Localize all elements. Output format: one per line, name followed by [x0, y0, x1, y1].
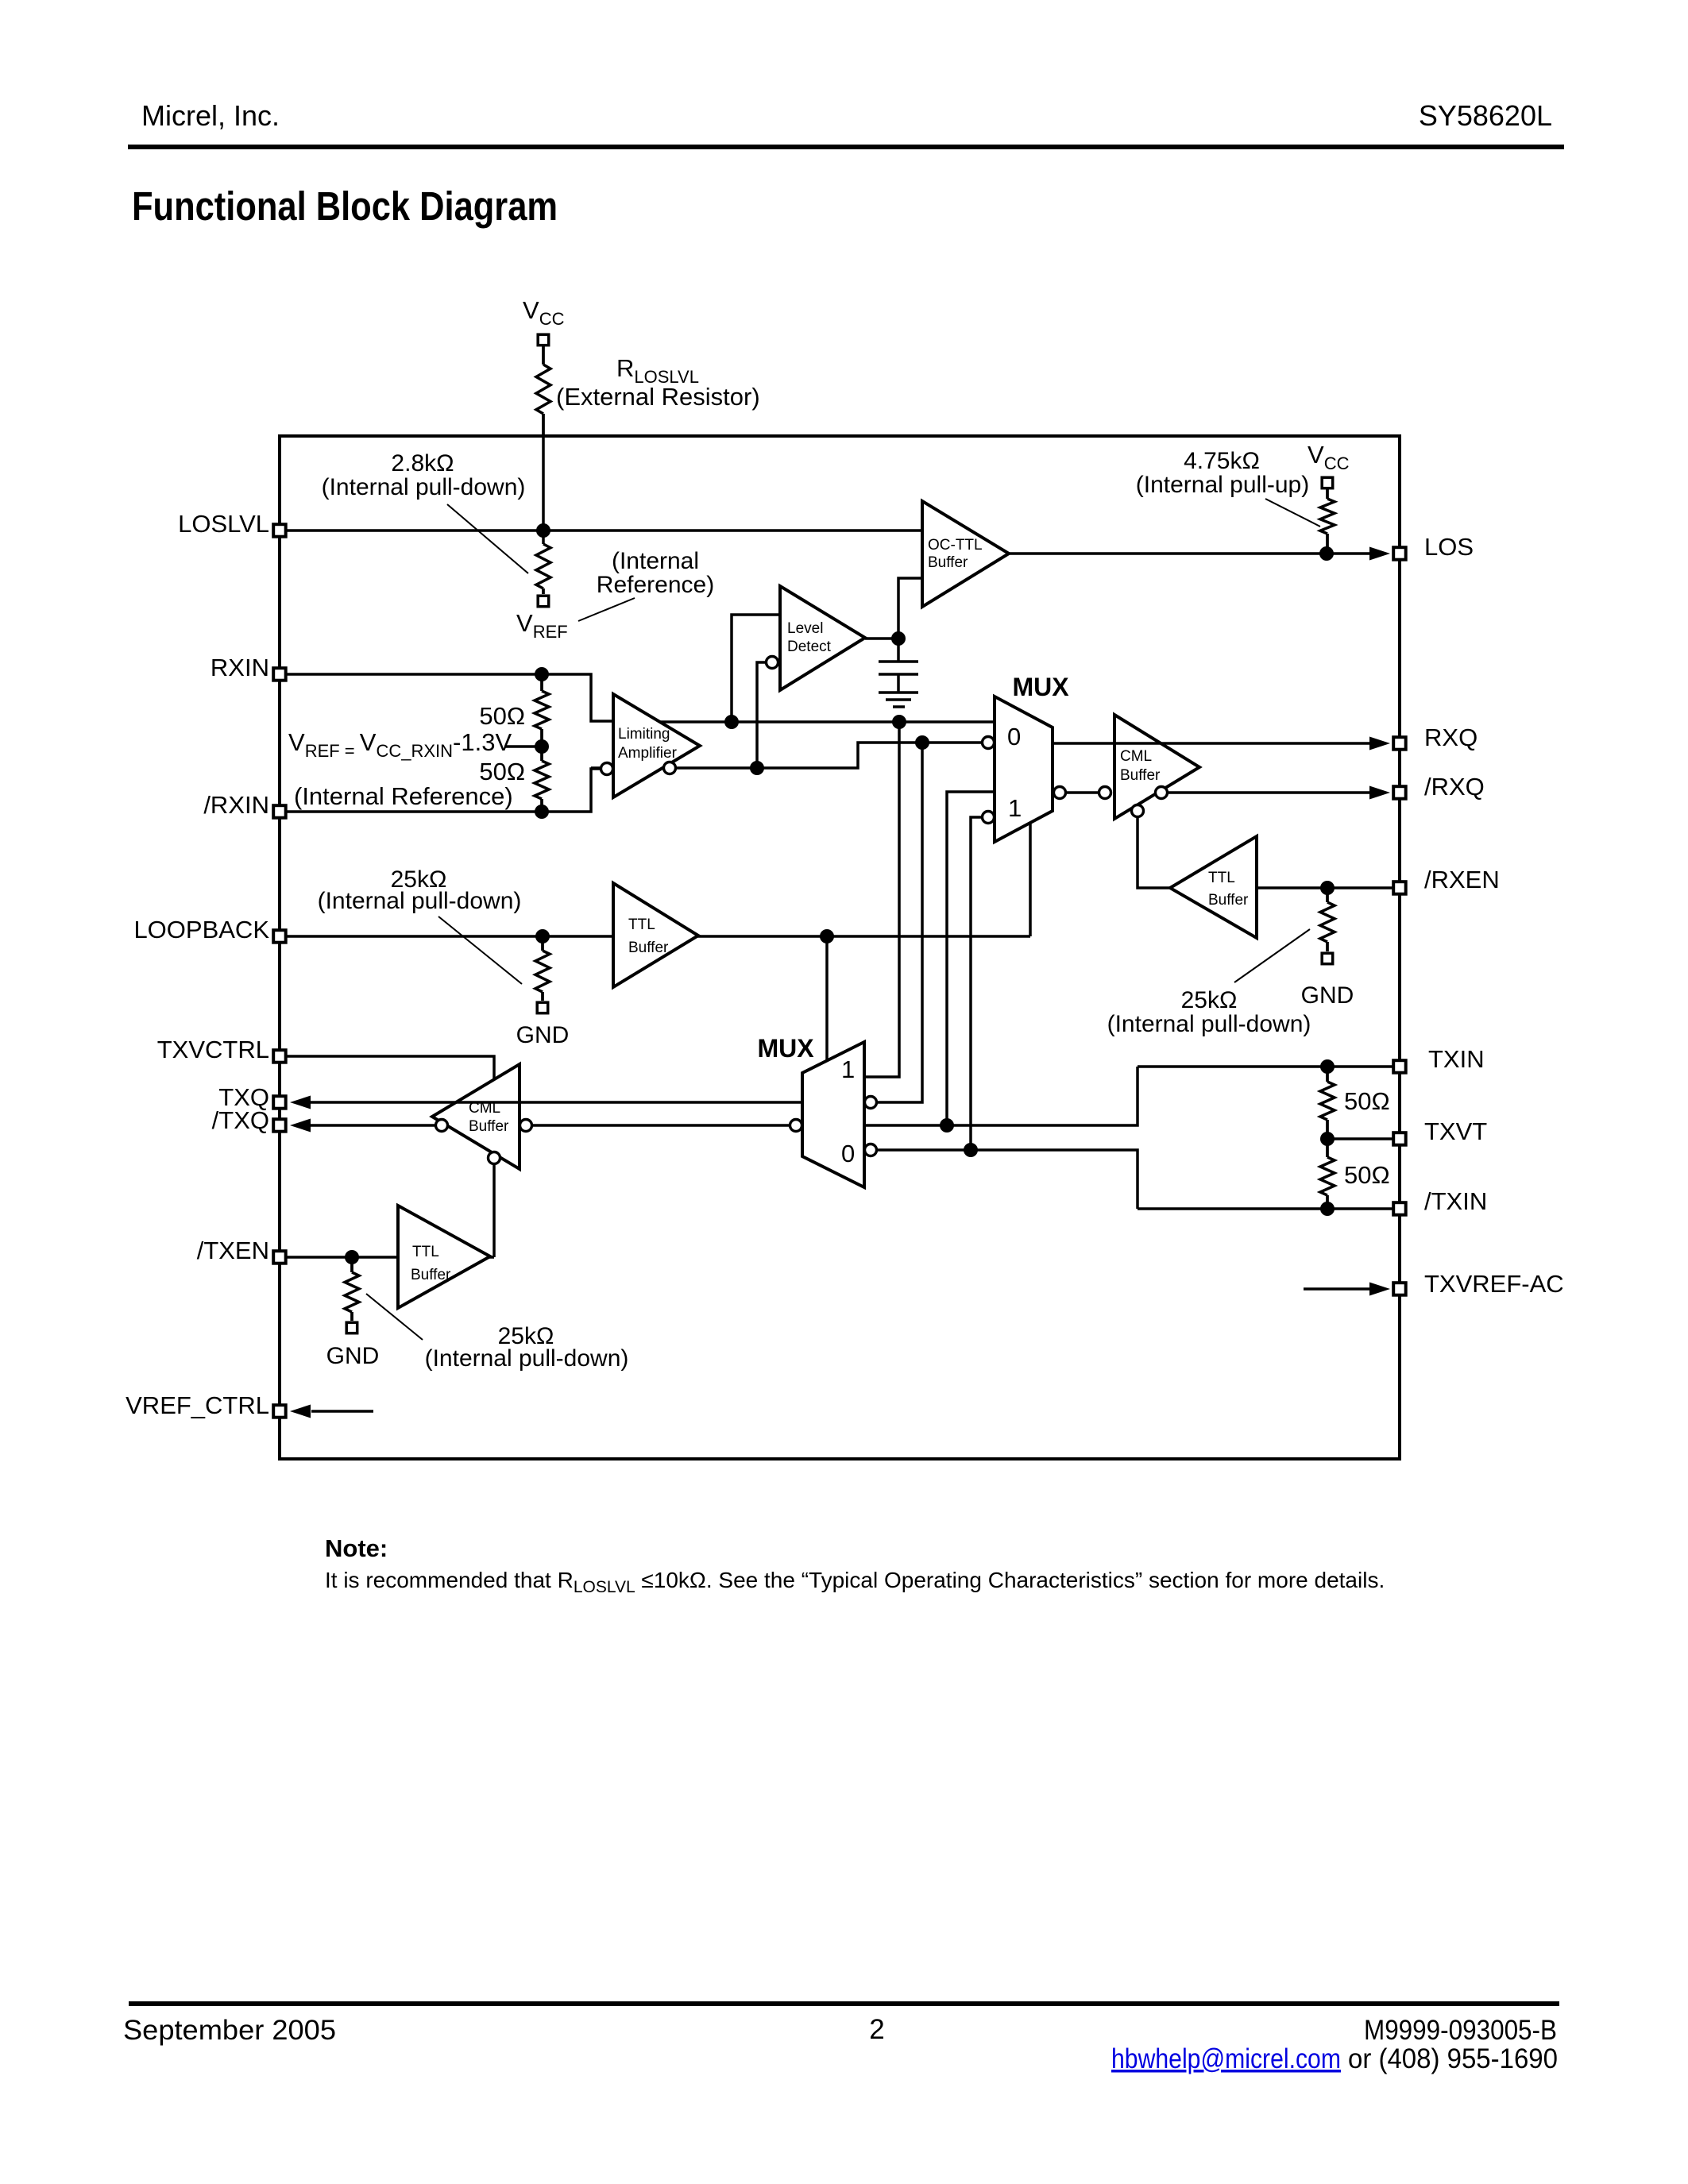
svg-text:50Ω: 50Ω	[1344, 1087, 1390, 1115]
svg-text:4.75kΩ: 4.75kΩ	[1184, 448, 1260, 474]
node /TXIN loopback tap	[964, 1143, 978, 1157]
node level detect output	[891, 631, 906, 646]
wire limiting amp out- to TX MUX input bubble	[877, 743, 922, 1102]
pointer 2.8k	[447, 504, 528, 573]
svg-text:hbwhelp@micrel.com: hbwhelp@micrel.com	[1111, 2043, 1341, 2074]
wire /RXEN 25k pulldown lead	[1326, 888, 1329, 902]
wire level detect input 1 feed	[732, 615, 780, 722]
svg-text:VCC: VCC	[1308, 441, 1350, 473]
pointer 4.75k	[1265, 499, 1320, 527]
wire level detect output to OC-TTL buffer	[865, 578, 922, 639]
wire limiting amp out+ to TX MUX input 1	[864, 722, 899, 1077]
terminal VCC external	[538, 334, 549, 345]
node limiting out- to TX MUX	[915, 735, 929, 750]
wire TXQ net	[310, 1101, 802, 1104]
node /RXIN junction	[535, 805, 549, 819]
wire R_LOSLVL to LOSLVL net	[542, 414, 545, 531]
svg-text:1: 1	[1008, 794, 1022, 822]
pin TXVT	[1393, 1133, 1406, 1145]
bubble TX MUX input 1 side	[865, 1097, 877, 1109]
svg-text:(Internal pull-down): (Internal pull-down)	[1107, 1011, 1311, 1037]
svg-text:VREF_CTRL: VREF_CTRL	[126, 1391, 269, 1419]
op-amp U9 TX CML buffer	[432, 1064, 520, 1169]
resistor LOOPBACK 25k pull-down	[535, 936, 550, 1001]
wire VREF formula tap	[505, 745, 542, 748]
wire /RXQ net	[1168, 791, 1373, 794]
resistor 4.75k internal pull-up	[1320, 489, 1335, 554]
svg-text:/RXEN: /RXEN	[1424, 866, 1500, 893]
bubble RX CML inverted output	[1156, 787, 1168, 799]
chip boundary	[280, 436, 1400, 1459]
svg-text:/RXQ: /RXQ	[1424, 773, 1485, 801]
svg-text:TXVT: TXVT	[1424, 1117, 1487, 1145]
mux U4 RX MUX	[995, 696, 1053, 842]
svg-text:LOSLVL: LOSLVL	[178, 510, 269, 538]
wire loopback buffer output	[287, 935, 1030, 938]
svg-text:RLOSLVL: RLOSLVL	[616, 354, 699, 387]
arrow /RXQ output	[1369, 786, 1390, 800]
wire TXVCTRL net to TX CML select and /TXEN buffer	[287, 1056, 494, 1257]
bubble RX MUX input 1	[983, 812, 995, 824]
wire LOSLVL net	[287, 529, 922, 532]
wire RX MUX input 1 from /TXIN net	[971, 817, 982, 1150]
svg-text:September 2005: September 2005	[123, 2015, 336, 2046]
pin LOSLVL	[273, 524, 286, 537]
pin RXIN	[273, 668, 286, 681]
svg-text:/RXIN: /RXIN	[203, 791, 269, 819]
svg-text:Amplifier: Amplifier	[618, 745, 678, 762]
arrow /TXQ output	[290, 1119, 311, 1133]
wire LOOPBACK 25k pulldown lead	[541, 936, 544, 951]
resistor R_LOSLVL external	[536, 346, 550, 436]
wire /TXEN net	[287, 1256, 494, 1259]
bubble TX MUX input 0	[865, 1144, 877, 1156]
svg-text:0: 0	[1007, 723, 1021, 751]
terminal GND loopback pull-down	[537, 1002, 548, 1013]
pin TXIN	[1393, 1060, 1406, 1073]
wire LOOPBACK 25k to GND	[541, 992, 544, 1001]
pointer internal reference	[578, 598, 635, 621]
svg-text:VCC: VCC	[523, 296, 565, 329]
svg-text:VREF: VREF	[516, 609, 568, 642]
pin /RXQ	[1393, 786, 1406, 799]
wire /TXIN net	[1138, 1207, 1393, 1210]
wire /TXEN 25k to GND	[350, 1312, 353, 1321]
wire TXVREF-AC stub	[1304, 1287, 1373, 1291]
wire limiting amp out+ to RX MUX input 0 path	[656, 720, 995, 723]
pointer 25k TXEN	[366, 1294, 423, 1340]
svg-text:LOOPBACK: LOOPBACK	[133, 916, 269, 943]
terminal VREF internal	[538, 596, 549, 607]
node limiting out- to level detect	[750, 761, 764, 775]
svg-text:Buffer: Buffer	[1208, 892, 1249, 909]
pin TXVCTRL	[273, 1050, 286, 1063]
wire TXVT tap	[1327, 1137, 1393, 1140]
arrow VREF_CTRL input	[290, 1405, 311, 1418]
node LOS pull-up junction	[1319, 546, 1334, 561]
ground symbol under capacitor	[879, 693, 918, 707]
svg-text:50Ω: 50Ω	[1344, 1161, 1390, 1189]
svg-text:/TXIN: /TXIN	[1424, 1187, 1487, 1215]
bubble limiting amp inverting input	[601, 763, 613, 775]
pin TXVREF-AC	[1393, 1283, 1406, 1295]
svg-text:/TXEN: /TXEN	[197, 1237, 269, 1264]
svg-text:TTL: TTL	[1208, 870, 1235, 886]
pin /RXEN	[1393, 882, 1406, 894]
wire node VREF pulldown	[542, 531, 545, 542]
wire MUX out to RX CML buffer	[1066, 791, 1099, 794]
svg-text:Limiting: Limiting	[618, 726, 670, 743]
wire RXIN 50ohm divider top lead	[540, 674, 543, 691]
svg-text:(Internal pull-down): (Internal pull-down)	[425, 1345, 629, 1372]
bubble RX CML input	[1099, 787, 1111, 799]
pin /TXQ	[273, 1119, 286, 1132]
wire RX CML bottom port to /RXEN buffer	[1138, 817, 1170, 888]
bubble level detect input 2	[767, 657, 778, 669]
svg-text:(Internal pull-down): (Internal pull-down)	[318, 888, 522, 914]
pin LOS	[1393, 547, 1406, 560]
wire TXIN net	[1138, 1065, 1393, 1068]
bubble RX MUX input 0	[983, 737, 995, 749]
svg-text:Functional Block Diagram: Functional Block Diagram	[132, 183, 558, 229]
svg-text:(External Resistor): (External Resistor)	[556, 383, 760, 411]
FOOTER	[123, 2001, 1559, 2074]
node LOSLVL/VREF junction	[536, 523, 550, 538]
bubble TX CML input	[520, 1120, 532, 1132]
arrow TXVREF-AC input	[1369, 1283, 1390, 1296]
svg-text:OC-TTL: OC-TTL	[928, 537, 983, 554]
bubble TX CML inverted output	[436, 1120, 448, 1132]
svg-text:or (408) 955-1690: or (408) 955-1690	[1348, 2043, 1558, 2074]
svg-text:25kΩ: 25kΩ	[1181, 987, 1238, 1013]
svg-text:Buffer: Buffer	[628, 940, 669, 956]
NOTE	[325, 1534, 1385, 1596]
wire 2.8k to VREF terminal	[542, 588, 545, 594]
arrow LOS output	[1369, 547, 1390, 561]
node /RXEN junction	[1320, 881, 1335, 895]
wire RXIN net	[287, 674, 613, 721]
svg-text:Buffer: Buffer	[469, 1118, 509, 1135]
op-amp U2 level detect	[780, 586, 865, 690]
svg-text:(Internal Reference): (Internal Reference)	[294, 782, 513, 810]
pin LOOPBACK	[273, 930, 286, 943]
arrow RXQ output	[1369, 737, 1390, 751]
pointer 25k loopback	[438, 916, 522, 984]
svg-text:TXIN: TXIN	[1428, 1045, 1485, 1073]
pin /RXIN	[273, 805, 286, 817]
svg-text:Buffer: Buffer	[411, 1267, 451, 1283]
wire level detect output to capacitor	[897, 639, 900, 662]
node TXVT junction	[1320, 1132, 1335, 1146]
svg-text:2.8kΩ: 2.8kΩ	[391, 450, 454, 477]
node limiting out+ to level detect	[724, 715, 739, 729]
svg-text:LOS: LOS	[1424, 533, 1474, 561]
pin /TXIN	[1393, 1202, 1406, 1215]
wire TXIN 50ohm middle	[1326, 1120, 1329, 1157]
svg-text:VREF = VCC_RXIN-1.3V: VREF = VCC_RXIN-1.3V	[288, 728, 512, 761]
node limiting out+ to TX MUX	[892, 715, 906, 729]
node loopback select tap	[820, 929, 834, 943]
wire TX MUX output to TXIN staircase	[864, 1067, 1138, 1125]
svg-text:Buffer: Buffer	[1120, 767, 1161, 784]
svg-text:/TXQ: /TXQ	[212, 1106, 269, 1134]
pin TXQ	[273, 1096, 286, 1109]
resistor RX 50ohm lower	[535, 747, 549, 812]
pin RXQ	[1393, 737, 1406, 750]
wire TXIN 50ohm top lead	[1326, 1067, 1329, 1082]
terminal VCC pull-up	[1322, 477, 1333, 488]
terminal GND /TXEN pull-down	[346, 1322, 357, 1333]
resistor /TXEN 25k pull-down	[345, 1257, 359, 1321]
capacitor C1	[879, 662, 918, 693]
svg-text:Reference): Reference)	[597, 572, 714, 598]
PAGE HEADER	[128, 99, 1564, 229]
svg-text:Detect: Detect	[787, 639, 832, 655]
bubble RX CML enable	[1132, 805, 1144, 817]
resistor TX 50ohm upper	[1320, 1067, 1335, 1139]
svg-text:TXVREF-AC: TXVREF-AC	[1424, 1270, 1564, 1298]
terminal GND /RXEN pull-down	[1322, 953, 1333, 964]
wire OC-TTL output to LOS pin	[1009, 552, 1373, 555]
resistor TX 50ohm lower	[1320, 1139, 1335, 1209]
wire RXIN 50ohm divider middle	[540, 729, 543, 761]
svg-text:50Ω: 50Ω	[479, 702, 525, 730]
wire /TXQ net	[310, 1124, 790, 1127]
pin /TXEN	[273, 1251, 286, 1264]
svg-text:GND: GND	[516, 1022, 570, 1048]
op-amp U10 /TXEN TTL buffer	[398, 1206, 490, 1308]
svg-text:Buffer: Buffer	[928, 554, 968, 571]
mux U8 TX MUX	[802, 1042, 864, 1187]
svg-text:RXQ: RXQ	[1424, 723, 1477, 751]
svg-text:M9999-093005-B: M9999-093005-B	[1364, 2015, 1557, 2046]
resistor /RXEN 25k pull-down	[1320, 888, 1335, 951]
wire TX MUX input 0 from /TXIN staircase	[877, 1150, 1138, 1209]
svg-text:MUX: MUX	[757, 1034, 814, 1063]
op-amp U3 OC-TTL buffer	[922, 501, 1009, 607]
svg-text:(Internal pull-up): (Internal pull-up)	[1136, 472, 1309, 498]
svg-text:Note:: Note:	[325, 1534, 388, 1562]
wire /RXEN net	[1257, 886, 1393, 889]
svg-text:SY58620L: SY58620L	[1419, 99, 1552, 132]
bubble limiting amp inverted output	[664, 762, 676, 774]
wire RXIN 50ohm divider bottom lead	[540, 799, 543, 812]
node TXIN loopback tap	[940, 1118, 954, 1133]
node /TXIN junction	[1320, 1202, 1335, 1216]
svg-text:1: 1	[841, 1055, 855, 1083]
op-amp U5 RX CML buffer	[1114, 715, 1199, 819]
node RXIN junction	[535, 667, 549, 681]
op-amp U1 limiting amplifier	[613, 694, 700, 797]
node LOOPBACK junction	[535, 929, 550, 943]
svg-text:Level: Level	[787, 620, 823, 637]
bubble TX CML enable	[489, 1152, 500, 1164]
svg-text:GND: GND	[326, 1343, 380, 1369]
wire RXQ net	[1053, 742, 1373, 745]
op-amp U7 loopback TTL buffer	[613, 883, 698, 987]
svg-text:It is recommended that RLOSLVL: It is recommended that RLOSLVL ≤10kΩ. Se…	[325, 1568, 1385, 1596]
resistor 2.8k internal pull-down	[536, 542, 550, 594]
node VREF_RXIN junction	[535, 739, 549, 754]
op-amp U6 /RXEN TTL buffer	[1170, 836, 1257, 938]
svg-text:TTL: TTL	[412, 1244, 439, 1260]
wire VREF_CTRL stub	[311, 1410, 373, 1413]
bubble TX MUX output	[790, 1120, 802, 1132]
svg-text:Micrel, Inc.: Micrel, Inc.	[141, 99, 280, 132]
node TXIN junction	[1320, 1059, 1335, 1074]
svg-text:2: 2	[869, 2014, 884, 2045]
svg-text:RXIN: RXIN	[211, 654, 269, 681]
wire level detect input 2 feed	[757, 662, 766, 768]
wire /RXEN 25k to GND	[1326, 942, 1329, 951]
svg-text:TTL: TTL	[628, 916, 655, 933]
wire 4.75k to LOS net	[1326, 534, 1329, 554]
wire RX MUX select from loopback buffer	[1029, 824, 1032, 936]
arrow TXQ output	[290, 1096, 311, 1109]
svg-text:(Internal: (Internal	[612, 548, 699, 574]
bubble RX MUX output	[1054, 787, 1066, 799]
wire TXIN 50ohm bottom lead	[1326, 1195, 1329, 1209]
svg-text:(Internal pull-down): (Internal pull-down)	[322, 474, 526, 500]
node /TXEN junction	[345, 1250, 359, 1264]
pin VREF_CTRL	[273, 1405, 286, 1418]
wire limiting amp out- with step to MUX 0 bubble	[591, 743, 982, 768]
wire /TXEN 25k pulldown lead	[350, 1257, 353, 1272]
svg-text:TXVCTRL: TXVCTRL	[157, 1036, 269, 1063]
wire /RXIN net	[287, 769, 601, 812]
pointer 25k RXEN	[1234, 929, 1310, 982]
wire loopback select to TX MUX	[825, 936, 829, 1061]
svg-text:GND: GND	[1301, 982, 1354, 1009]
svg-text:50Ω: 50Ω	[479, 758, 525, 785]
svg-text:MUX: MUX	[1012, 673, 1069, 701]
wire VCC pullup lead	[1326, 489, 1329, 499]
resistor RX 50ohm upper	[535, 674, 549, 747]
svg-text:CML: CML	[1120, 748, 1152, 765]
svg-text:0: 0	[841, 1140, 855, 1167]
wire VCC to R_LOSLVL lead	[542, 346, 545, 365]
wire RX MUX loopback input from TX MUX output	[947, 792, 995, 1125]
